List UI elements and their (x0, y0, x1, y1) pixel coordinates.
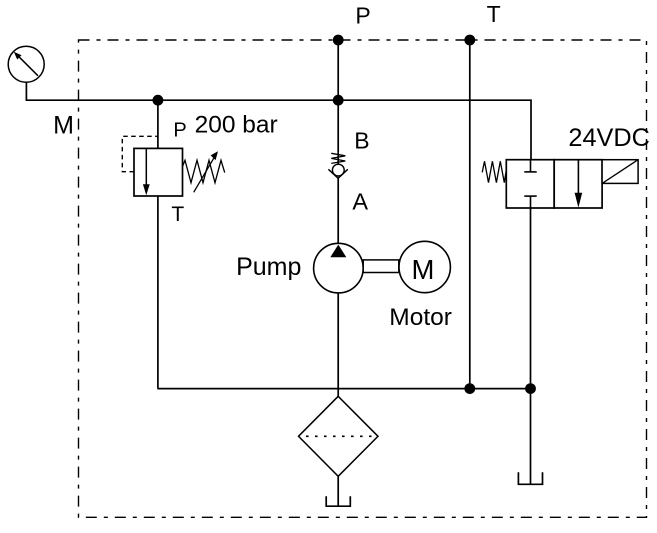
svg-text:M: M (53, 112, 74, 140)
svg-text:P: P (355, 2, 370, 28)
svg-text:24VDC: 24VDC (568, 124, 650, 152)
svg-text:T: T (171, 203, 184, 226)
svg-text:200 bar: 200 bar (195, 111, 278, 138)
svg-text:M: M (412, 254, 435, 285)
svg-text:P: P (173, 120, 186, 142)
svg-text:Motor: Motor (389, 304, 452, 331)
svg-text:A: A (352, 189, 368, 215)
svg-text:T: T (487, 1, 501, 27)
svg-text:B: B (354, 128, 369, 154)
svg-text:Pump: Pump (236, 253, 301, 281)
